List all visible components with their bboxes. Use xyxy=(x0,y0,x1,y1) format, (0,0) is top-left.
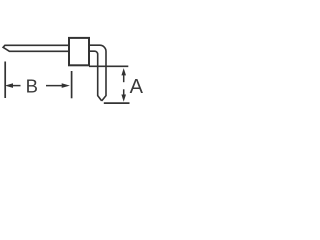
horizontal pin with chamfered tip xyxy=(3,45,69,51)
dimension A lower arrow xyxy=(121,89,126,102)
bent pin inner edge xyxy=(89,51,102,101)
dimension A upper arrow xyxy=(121,68,126,82)
pin body block xyxy=(69,38,89,65)
svg-text:B: B xyxy=(26,75,38,96)
bent pin outer edge xyxy=(89,45,106,101)
pin tip extension line (A bottom reference) xyxy=(104,102,130,104)
extension line at pin tip (B left reference) xyxy=(4,62,6,99)
extension line at block face (B right reference) xyxy=(71,71,73,98)
svg-text:A: A xyxy=(130,76,144,98)
dimension B right arrow xyxy=(46,83,70,88)
dimension B left arrow xyxy=(5,83,21,88)
seating plane extension line (A top reference) xyxy=(89,65,128,67)
